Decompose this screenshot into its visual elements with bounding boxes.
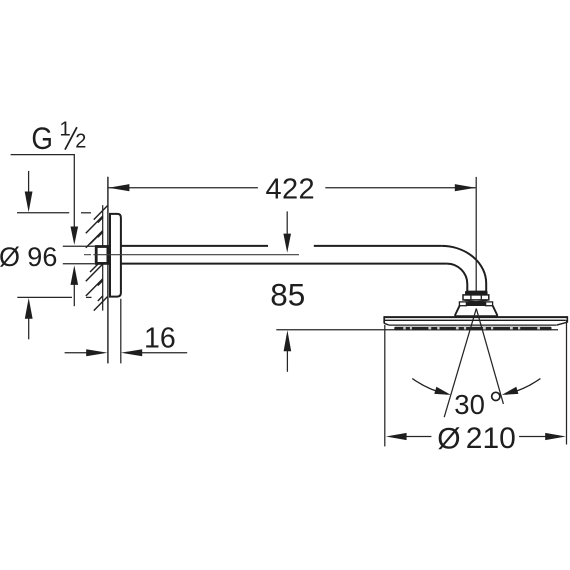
shower arm bottom edge [121,263,447,265]
dimension label 85 [270,276,305,312]
G 1/2 leader line [11,155,75,228]
G 1/2 upper arrow (down) [71,227,79,245]
16 right extension line (plate front) [120,299,122,364]
cone base [455,306,497,317]
85 extension line / head bottom face [276,329,558,331]
Ø210 right arrow [519,433,566,440]
svg-text:Ø: Ø [0,242,20,272]
wall surface line (also extension line for 422 and 16) [107,177,109,364]
wall hatching [86,206,108,311]
dimension label G 1/2 [31,118,86,156]
svg-text:2: 2 [75,131,86,153]
dimension 422 line right segment with right arrow [325,184,475,191]
wall inner line [102,205,104,310]
spray nozzles [394,327,551,330]
dimension label Ø 96 [0,242,57,272]
svg-text:210: 210 [466,422,516,455]
shower arm top edge [121,245,441,247]
dimension 422 line left segment with left arrow [109,184,258,191]
dimension 16 right arrow (points left at plate front) [121,349,187,356]
Ø210 left extension line [384,325,386,446]
svg-text:16: 16 [144,323,176,355]
dimension label 30° [454,389,500,420]
svg-text:G: G [31,120,53,156]
30° spray angle right line [476,309,503,404]
shower head top line [384,316,567,318]
nipple bottom extension line [63,263,95,265]
dimension 85 lower arrow (up to head bottom) [284,330,292,372]
G 1/2 lower arrow (up) [71,265,79,306]
dimension 16 left arrow (points right at wall) [65,349,108,356]
30° left arc arrow [412,379,451,395]
nipple top extension line [63,245,95,247]
svg-text:85: 85 [270,276,305,312]
arm centerline [84,254,299,256]
dimension label 16 [144,323,176,355]
arm union nut dark band [465,291,488,296]
hex nut [463,295,489,302]
30° spray angle left line [444,309,476,418]
wall plate (escutcheon) [110,214,121,297]
svg-text:Ø: Ø [437,422,460,455]
collar ring [459,302,492,306]
30° right arc arrow [502,379,541,395]
Ø96 top arrow (down) [25,171,33,212]
shower head second line [385,319,566,321]
shower head shell line [389,324,557,326]
Ø96 bottom extension line [17,296,91,298]
dimension 85 upper arrow (down to arm centerline) [283,211,291,252]
Ø210 left arrow [386,433,432,440]
Ø96 bottom arrow (up) [25,298,33,339]
shower head left edge [384,316,389,325]
svg-text:96: 96 [27,242,57,272]
svg-text:30: 30 [454,389,485,420]
G 1/2 nipple behind wall [96,247,108,264]
dimension label 422 [266,174,316,206]
Ø210 right extension line [566,320,568,445]
svg-text:422: 422 [266,174,316,206]
Ø96 top extension line [17,212,91,214]
svg-text:1: 1 [59,118,70,141]
shower arm bend inner curve [447,264,467,292]
422 right extension line (head axis) [475,177,477,291]
shower arm bend outer curve [441,246,486,292]
shower head right edge [557,316,568,325]
dimension label Ø 210 [437,422,516,455]
